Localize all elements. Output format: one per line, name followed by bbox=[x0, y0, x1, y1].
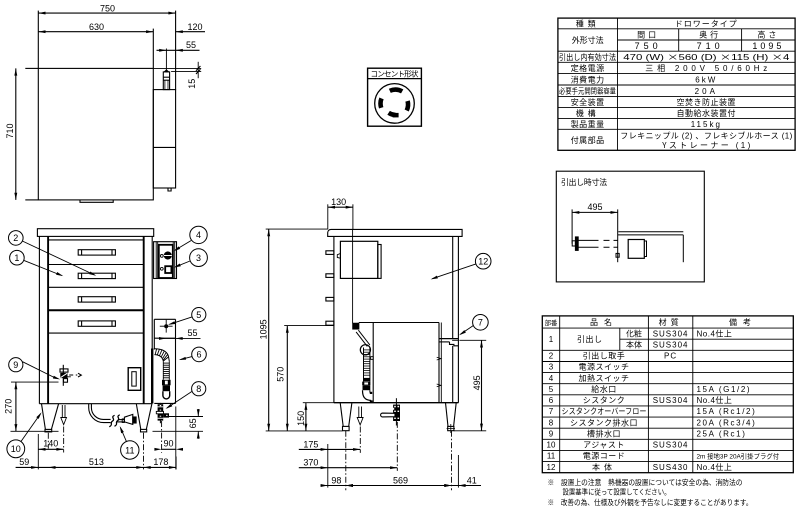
svg-text:PC: PC bbox=[664, 351, 677, 362]
svg-text:安全装置: 安全装置 bbox=[571, 97, 605, 108]
dim 570 bbox=[286, 326, 288, 431]
dim 495 bbox=[481, 340, 483, 431]
svg-text:電源スイッチ: 電源スイッチ bbox=[579, 362, 630, 373]
control panel plate bbox=[159, 245, 173, 278]
leader 8 bbox=[167, 391, 192, 408]
svg-text:8: 8 bbox=[196, 382, 201, 395]
front left leg bbox=[42, 404, 46, 430]
svg-text:シスタンク排水口: シスタンク排水口 bbox=[570, 417, 638, 428]
flexible hose (front) curve bbox=[154, 349, 169, 361]
svg-text:※ 改善の為、仕様及び外観を予告なしに変更することがあります: ※ 改善の為、仕様及び外観を予告なしに変更することがあります。 bbox=[548, 498, 753, 506]
dim 710 bbox=[15, 68, 17, 200]
svg-text:2: 2 bbox=[13, 231, 18, 244]
dim 175 bbox=[299, 448, 361, 450]
svg-text:9: 9 bbox=[549, 428, 554, 439]
left side tabs bbox=[326, 251, 334, 255]
svg-text:シスタンクオーバーフロー: シスタンクオーバーフロー bbox=[562, 406, 647, 417]
svg-text:部番: 部番 bbox=[545, 318, 558, 327]
svg-text:コンセント形状: コンセント形状 bbox=[371, 69, 419, 80]
hose nut (side) bbox=[362, 382, 370, 386]
svg-text:SUS304: SUS304 bbox=[653, 329, 689, 340]
cistern box (right side) bbox=[154, 318, 175, 320]
svg-text:41: 41 bbox=[467, 473, 477, 486]
faucet dashed arrow bbox=[69, 374, 77, 376]
svg-text:外形寸法: 外形寸法 bbox=[572, 35, 604, 46]
dim 15 tick marks bbox=[197, 62, 199, 78]
svg-text:6: 6 bbox=[549, 395, 554, 406]
svg-text:178: 178 bbox=[153, 455, 168, 468]
bottom ext verticals (side) bbox=[327, 444, 329, 488]
side control box hook bbox=[337, 254, 340, 259]
svg-text:710: 710 bbox=[697, 39, 724, 52]
side top cap bbox=[328, 229, 462, 236]
svg-text:1095: 1095 bbox=[752, 39, 784, 52]
svg-text:570: 570 bbox=[274, 367, 287, 382]
svg-text:引出し: 引出し bbox=[577, 334, 603, 345]
dim 270 bbox=[15, 382, 17, 431]
svg-text:5: 5 bbox=[196, 308, 201, 321]
water inlet target symbol bbox=[164, 324, 168, 328]
dim 1095 bbox=[268, 229, 270, 431]
leader 3 bbox=[175, 261, 190, 267]
svg-text:140: 140 bbox=[43, 437, 58, 450]
svg-text:15: 15 bbox=[185, 79, 198, 89]
outlet slots bbox=[381, 90, 409, 115]
dim 710 extension lines bbox=[25, 67, 38, 69]
leader 1 bbox=[24, 260, 62, 275]
svg-text:513: 513 bbox=[89, 455, 104, 468]
dim 65 bbox=[197, 409, 199, 417]
drawer top line bbox=[48, 239, 144, 241]
svg-text:2m 接地3P 20A引掛プラグ付: 2m 接地3P 20A引掛プラグ付 bbox=[697, 452, 780, 461]
leader 6 bbox=[180, 357, 192, 360]
svg-text:アジャスト: アジャスト bbox=[583, 440, 625, 451]
hose collar (side) bbox=[363, 385, 371, 390]
leader 10 bbox=[21, 414, 41, 442]
hose diagonal segment (side) bbox=[358, 330, 370, 345]
leader 9 bbox=[23, 362, 57, 379]
svg-text:7: 7 bbox=[549, 406, 554, 417]
front top cap bbox=[37, 229, 153, 237]
water pipe vertical bbox=[352, 229, 354, 323]
bottom dim baseline 59/513/178 bbox=[16, 466, 177, 468]
overflow cover on front bbox=[128, 368, 141, 391]
svg-text:8: 8 bbox=[549, 417, 554, 428]
cistern drain fitting (part 8) bbox=[159, 403, 161, 423]
front view callout circles bbox=[7, 226, 208, 459]
svg-text:470 (W) ×560 (D) ×115 (H) ×4: 470 (W) ×560 (D) ×115 (H) ×4 bbox=[623, 52, 790, 63]
dim 55 (top view) bbox=[157, 49, 200, 51]
svg-text:No.4仕上: No.4仕上 bbox=[697, 462, 733, 473]
leader 5 bbox=[170, 317, 192, 324]
dim 65 ext lines bbox=[168, 416, 204, 418]
svg-text:三相 200V 50/60Hz: 三相 200V 50/60Hz bbox=[645, 63, 767, 74]
top view main body outline bbox=[38, 68, 153, 200]
hose coil ring (side) bbox=[360, 345, 370, 355]
svg-text:495: 495 bbox=[470, 375, 483, 390]
leader 2 bbox=[22, 241, 94, 275]
dim 370 bbox=[299, 467, 398, 469]
svg-text:630: 630 bbox=[89, 20, 104, 33]
leg centerlines (side) bbox=[345, 431, 347, 491]
top view dimension texts bbox=[3, 1, 203, 138]
svg-text:15A (G1/2): 15A (G1/2) bbox=[697, 384, 752, 395]
svg-text:20A: 20A bbox=[695, 86, 718, 97]
svg-text:10: 10 bbox=[547, 440, 556, 451]
svg-text:本体: 本体 bbox=[592, 462, 616, 473]
svg-text:定格電源: 定格電源 bbox=[571, 63, 605, 74]
dim 750 extension lines bbox=[37, 11, 39, 69]
svg-text:No.4仕上: No.4仕上 bbox=[697, 329, 733, 340]
svg-text:付属部品: 付属部品 bbox=[571, 135, 605, 146]
svg-text:種類: 種類 bbox=[576, 18, 600, 29]
drawer handle 3 bbox=[78, 297, 115, 302]
overflow pipe (part 7) bbox=[439, 338, 458, 340]
front right leg bbox=[136, 404, 141, 430]
dim 495 ext lines bbox=[571, 209, 573, 243]
front view leader lines bbox=[21, 241, 192, 442]
dim 90 ext lines bbox=[161, 421, 163, 453]
svg-text:引出し取手: 引出し取手 bbox=[583, 351, 626, 362]
mini cabinet front tab bbox=[616, 253, 619, 257]
drawer handle 4 bbox=[78, 321, 115, 326]
svg-text:SUS304: SUS304 bbox=[653, 340, 689, 351]
svg-text:11: 11 bbox=[547, 451, 556, 462]
front view dim texts bbox=[2, 326, 200, 468]
mini drawer handle nub bbox=[572, 241, 575, 246]
svg-text:270: 270 bbox=[2, 399, 15, 414]
leg centerlines bbox=[47, 433, 49, 449]
hose lower black band (side) bbox=[364, 378, 370, 381]
svg-text:空焚き防止装置: 空焚き防止装置 bbox=[677, 97, 737, 108]
dim 630 bbox=[38, 31, 153, 33]
drain cap bbox=[124, 414, 132, 424]
svg-text:120: 120 bbox=[187, 20, 202, 33]
svg-text:175: 175 bbox=[303, 437, 318, 450]
drawer dividers bbox=[48, 264, 144, 266]
dim 90 bbox=[162, 448, 176, 450]
leader 12 bbox=[432, 264, 475, 279]
svg-text:消費電力: 消費電力 bbox=[571, 74, 605, 85]
svg-text:10: 10 bbox=[11, 442, 21, 455]
mini cabinet top bbox=[618, 231, 683, 233]
svg-text:1: 1 bbox=[14, 251, 19, 264]
svg-text:3: 3 bbox=[196, 251, 201, 264]
svg-text:7: 7 bbox=[478, 316, 483, 329]
heat switch knob bbox=[164, 252, 171, 259]
svg-text:55: 55 bbox=[187, 326, 197, 339]
top view bottom tab bbox=[80, 200, 113, 202]
svg-text:710: 710 bbox=[3, 123, 16, 138]
svg-text:1095: 1095 bbox=[257, 319, 270, 339]
water inlet fitting centerline bbox=[165, 49, 167, 73]
svg-text:槽排水口: 槽排水口 bbox=[587, 428, 621, 439]
svg-text:6: 6 bbox=[196, 348, 201, 361]
svg-text:※ 設置上の注意 熱機器の設置については安全の為、消防法の: ※ 設置上の注意 熱機器の設置については安全の為、消防法の bbox=[548, 478, 743, 488]
leader 11 bbox=[120, 428, 126, 442]
outlet ground slot nub bbox=[393, 113, 399, 118]
mini inner drawer square bbox=[628, 240, 644, 259]
svg-text:12: 12 bbox=[547, 462, 556, 473]
pipe-to-tank fitting bbox=[353, 323, 359, 329]
hose ribbed tube bbox=[163, 361, 169, 380]
svg-text:必要手元開閉器容量: 必要手元開閉器容量 bbox=[559, 86, 616, 97]
svg-text:SUS430: SUS430 bbox=[653, 462, 689, 473]
svg-text:90: 90 bbox=[163, 437, 173, 450]
svg-text:750: 750 bbox=[635, 39, 662, 52]
drain down arrow (side) bbox=[358, 407, 360, 418]
svg-text:495: 495 bbox=[587, 200, 602, 213]
svg-text:給水口: 給水口 bbox=[591, 384, 617, 395]
tank drain valve (side) bbox=[395, 398, 397, 425]
outlet circle bbox=[375, 84, 415, 124]
top view side assembly bbox=[153, 90, 175, 188]
dim 140 ext line bbox=[37, 434, 39, 469]
dim 15 extension lines bbox=[153, 67, 201, 69]
svg-text:4: 4 bbox=[549, 373, 554, 384]
svg-text:設置基準に従って設置してください。: 設置基準に従って設置してください。 bbox=[563, 488, 671, 498]
rear foot adjuster cross bbox=[450, 424, 452, 433]
side control box bbox=[340, 241, 377, 278]
drawer handle 1 bbox=[78, 250, 115, 255]
svg-text:9: 9 bbox=[13, 358, 18, 371]
hose U-bend (side) bbox=[363, 390, 372, 400]
drawer handle 2 bbox=[78, 273, 115, 278]
mini drawer front plate bbox=[575, 237, 578, 251]
drain down arrow bbox=[61, 405, 63, 418]
svg-text:115kg: 115kg bbox=[691, 119, 722, 130]
svg-text:5: 5 bbox=[549, 384, 554, 395]
dim 98/569 baseline bbox=[321, 485, 353, 487]
svg-text:機構: 機構 bbox=[576, 108, 600, 119]
dim 130 ext lines bbox=[327, 204, 329, 229]
svg-text:25A (Rc1): 25A (Rc1) bbox=[697, 428, 747, 439]
water inlet fitting bbox=[163, 72, 169, 90]
svg-text:750: 750 bbox=[100, 1, 115, 14]
hose black collar bbox=[163, 385, 170, 391]
svg-text:11: 11 bbox=[125, 443, 134, 456]
svg-text:569: 569 bbox=[393, 473, 408, 486]
svg-text:電源コード: 電源コード bbox=[583, 451, 626, 462]
hose nut bbox=[162, 380, 171, 386]
dim 750 bbox=[38, 12, 175, 14]
dim 495 bbox=[572, 211, 618, 213]
svg-text:SUS304: SUS304 bbox=[653, 440, 689, 451]
svg-text:3: 3 bbox=[549, 362, 554, 373]
svg-text:65: 65 bbox=[186, 418, 199, 428]
dim 140 bbox=[38, 448, 63, 450]
side view dim texts bbox=[257, 195, 484, 486]
side front leg bbox=[340, 403, 343, 427]
leader 7 bbox=[460, 326, 473, 335]
svg-text:370: 370 bbox=[303, 456, 318, 469]
control box outer bbox=[154, 242, 177, 279]
dim 55 (front) bbox=[161, 337, 201, 339]
tank outline bbox=[359, 322, 439, 324]
leader 4 bbox=[175, 241, 192, 251]
dim 150 ext line bbox=[303, 402, 334, 404]
drain pipe elbow bbox=[89, 404, 111, 423]
drawer-open box frame bbox=[556, 171, 704, 282]
side assembly small bottom tab bbox=[168, 188, 171, 191]
svg-text:4: 4 bbox=[196, 228, 201, 241]
svg-text:本体: 本体 bbox=[626, 340, 642, 351]
svg-text:150: 150 bbox=[294, 411, 307, 426]
svg-text:シスタンク: シスタンク bbox=[583, 395, 626, 406]
tank edge clips bbox=[437, 357, 441, 360]
dim 495 ext lines bbox=[459, 339, 486, 341]
power switch bbox=[165, 266, 171, 273]
side body outline bbox=[333, 236, 335, 402]
svg-text:自動給水装置付: 自動給水装置付 bbox=[677, 108, 737, 119]
svg-text:備考: 備考 bbox=[729, 317, 757, 328]
drawer frame thick verticals bbox=[47, 236, 49, 403]
svg-text:12: 12 bbox=[478, 255, 488, 268]
side view leaders bbox=[430, 264, 475, 336]
hose ribbed tube (side) bbox=[363, 348, 365, 382]
svg-text:化粧: 化粧 bbox=[626, 329, 642, 340]
dim 41 bbox=[444, 485, 481, 487]
dim 630 extension bbox=[152, 29, 154, 69]
hose end cap bbox=[163, 391, 170, 399]
svg-text:6kW: 6kW bbox=[695, 75, 717, 86]
svg-text:材質: 材質 bbox=[659, 317, 683, 328]
dim 150 bbox=[305, 403, 307, 431]
svg-text:加熱スイッチ: 加熱スイッチ bbox=[579, 373, 630, 384]
faucet (part 9) bbox=[62, 365, 64, 386]
svg-text:製品重量: 製品重量 bbox=[571, 119, 605, 130]
svg-text:No.4仕上: No.4仕上 bbox=[697, 395, 733, 406]
svg-text:20A (Rc3/4): 20A (Rc3/4) bbox=[697, 417, 757, 428]
front body outline bbox=[38, 236, 40, 403]
svg-text:59: 59 bbox=[19, 455, 29, 468]
dim 130 bbox=[328, 206, 353, 208]
svg-text:引出し時寸法: 引出し時寸法 bbox=[561, 177, 607, 188]
dim 270 ext lines bbox=[11, 381, 59, 383]
svg-text:引出し内有効寸法: 引出し内有効寸法 bbox=[559, 52, 616, 63]
svg-text:55: 55 bbox=[186, 38, 196, 51]
side view callout circles bbox=[473, 253, 491, 330]
svg-text:2: 2 bbox=[549, 351, 554, 362]
drain valve union bbox=[109, 415, 114, 427]
dim 570 ext line bbox=[284, 325, 334, 327]
svg-text:130: 130 bbox=[331, 195, 346, 208]
outlet box frame bbox=[368, 68, 422, 126]
svg-text:SUS304: SUS304 bbox=[653, 395, 689, 406]
dim 120 bbox=[176, 31, 205, 33]
side rear leg bbox=[446, 403, 449, 427]
svg-text:品名: 品名 bbox=[590, 317, 618, 328]
dim 1095 ext lines bbox=[266, 228, 328, 230]
svg-text:15A (Rc1/2): 15A (Rc1/2) bbox=[697, 406, 757, 417]
mini drawer slab bbox=[578, 239, 598, 241]
svg-text:1: 1 bbox=[549, 334, 554, 345]
svg-text:Yストレーナー (1): Yストレーナー (1) bbox=[661, 140, 750, 151]
svg-text:98: 98 bbox=[331, 473, 341, 486]
side assembly divider bbox=[153, 146, 175, 148]
svg-text:ドロワータイプ: ドロワータイプ bbox=[675, 19, 738, 30]
